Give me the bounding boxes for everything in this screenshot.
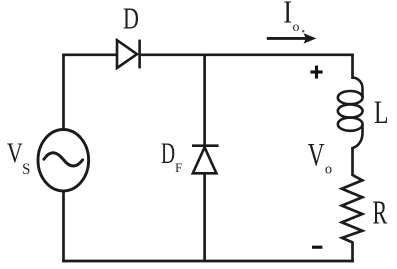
inductor L [338, 78, 363, 149]
wire DF vertical upper (top wire to diode DF) [203, 55, 206, 146]
diode DF [192, 146, 219, 174]
svg-text:V: V [7, 137, 23, 170]
wire right vertical upper (top corner to inductor) [351, 54, 354, 80]
svg-text:I: I [283, 0, 292, 30]
svg-text:o: o [325, 161, 332, 177]
plus sign [310, 66, 322, 79]
svg-text:D: D [161, 138, 175, 170]
svg-text:F: F [175, 161, 182, 175]
wire top horizontal (diode D to right corner) [140, 53, 354, 56]
arrow Io [267, 33, 317, 43]
svg-text:S: S [22, 162, 30, 178]
svg-text:L: L [374, 96, 388, 131]
wire top-left horizontal (source to diode D) [62, 53, 118, 56]
wire bottom horizontal [62, 260, 354, 263]
wire right vertical lower (resistor to bottom corner) [351, 242, 354, 263]
diode D [117, 40, 140, 69]
source VS circle [38, 130, 89, 191]
source sine wave [44, 153, 83, 166]
svg-text:R: R [373, 194, 388, 232]
minus sign [312, 246, 322, 249]
resistor R zigzag [342, 175, 363, 242]
wire left vertical upper (top corner to source) [62, 54, 65, 132]
svg-text:V: V [308, 137, 325, 173]
svg-text:D: D [123, 1, 139, 36]
wire right vertical middle (inductor to resistor) [351, 147, 354, 176]
wire DF vertical lower (diode DF to bottom wire) [203, 173, 206, 262]
svg-text:o: o [293, 20, 300, 35]
label Io period dot [302, 30, 304, 32]
wire left vertical lower (source to bottom corner) [62, 190, 65, 262]
